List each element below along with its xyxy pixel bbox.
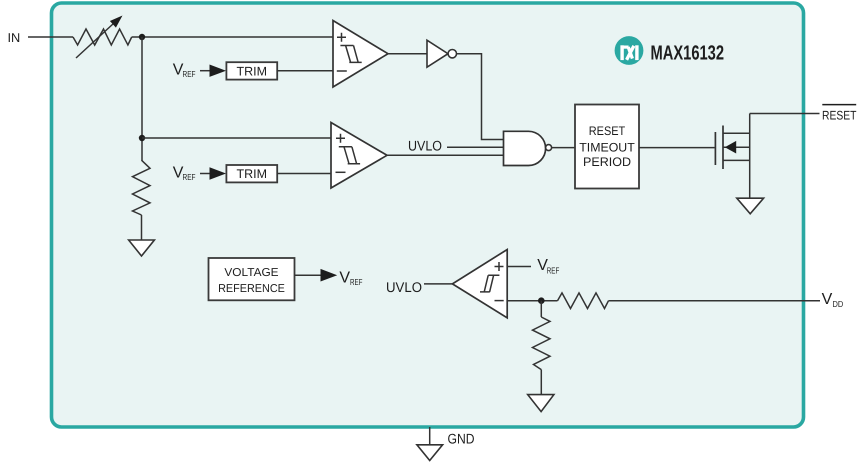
ground (R3): [528, 395, 554, 412]
svg-text:REFERENCE: REFERENCE: [218, 283, 285, 295]
svg-text:DD: DD: [833, 299, 844, 309]
wire TRIM2 to U2 minus input: [277, 173, 331, 175]
Maxim logo: [615, 36, 644, 65]
MOSFET Q1: [714, 132, 716, 165]
svg-text:V: V: [822, 291, 833, 308]
svg-text:GND: GND: [448, 430, 475, 446]
wire inverter to NAND input 1: [457, 54, 504, 140]
wire U2 output (UVLO net) to NAND input 3: [387, 154, 504, 156]
arrow VREF to TRIM2: [200, 173, 211, 175]
wire MOSFET drain to RESET pin: [750, 113, 820, 115]
svg-text:RESET: RESET: [822, 108, 857, 122]
svg-text:RESET: RESET: [589, 124, 626, 138]
svg-text:TIMEOUT: TIMEOUT: [579, 141, 635, 155]
comparator U1: [333, 21, 388, 88]
wire NAND to reset timeout block: [552, 147, 575, 149]
wire block to MOSFET gate: [639, 147, 715, 149]
wire IN to potentiometer: [28, 36, 73, 38]
wire node A down to node B and divider: [141, 37, 143, 161]
wire TRIM1 to U1 minus input: [277, 70, 333, 72]
wire R2 to VDD pin: [609, 300, 821, 302]
svg-text:REF: REF: [350, 277, 363, 287]
wire node B to comparator U2: [142, 137, 331, 139]
RESET TIMEOUT PERIOD block: [575, 105, 639, 189]
svg-text:UVLO: UVLO: [386, 279, 422, 295]
potentiometer (adjustable resistor): [73, 29, 132, 45]
wire U3 plus input to VREF: [507, 266, 531, 268]
svg-text:REF: REF: [183, 172, 196, 182]
wire/arrow VREF output: [295, 274, 323, 276]
svg-text:MAX16132: MAX16132: [651, 43, 725, 65]
wire potentiometer to node A: [132, 36, 333, 38]
inverter: [427, 40, 448, 67]
svg-text:TRIM: TRIM: [237, 64, 268, 78]
wire U1 output to inverter: [388, 53, 427, 55]
block boundary MAX16132: [52, 3, 804, 427]
wire UVLO label to NAND input 2: [447, 146, 504, 148]
comparator U3 (mirrored): [452, 250, 507, 318]
svg-text:TRIM: TRIM: [237, 167, 268, 181]
TRIM block 2: [226, 165, 277, 182]
svg-text:VOLTAGE: VOLTAGE: [224, 267, 279, 279]
TRIM block 1: [226, 62, 277, 79]
comparator U2: [331, 123, 387, 189]
node A junction: [139, 34, 145, 40]
arrow VREF to TRIM1: [200, 70, 211, 72]
svg-text:REF: REF: [183, 69, 196, 79]
wire U3 minus input to node C: [507, 300, 557, 302]
node B junction: [139, 135, 145, 141]
resistor R1 (lower divider): [133, 160, 151, 215]
svg-text:UVLO: UVLO: [408, 138, 442, 154]
svg-text:V: V: [339, 269, 350, 286]
resistor R2 (to VDD): [558, 293, 609, 309]
ground (MOSFET source): [737, 198, 764, 214]
wire node C to resistor R3: [540, 301, 542, 317]
svg-text:IN: IN: [8, 30, 21, 45]
resistor R3 (lower divider): [533, 317, 551, 370]
VOLTAGE REFERENCE block: [209, 258, 295, 300]
wire R3 to ground: [540, 370, 542, 395]
wire UVLO to comparator U3 output: [424, 283, 452, 285]
svg-text:PERIOD: PERIOD: [583, 155, 631, 169]
ground (GND pin): [417, 445, 443, 461]
NAND gate: [504, 131, 546, 165]
wire R1 to ground: [141, 215, 143, 240]
svg-text:REF: REF: [547, 265, 560, 275]
node C junction: [538, 297, 545, 304]
GND pin wire: [429, 427, 431, 445]
ground (divider): [129, 240, 155, 256]
